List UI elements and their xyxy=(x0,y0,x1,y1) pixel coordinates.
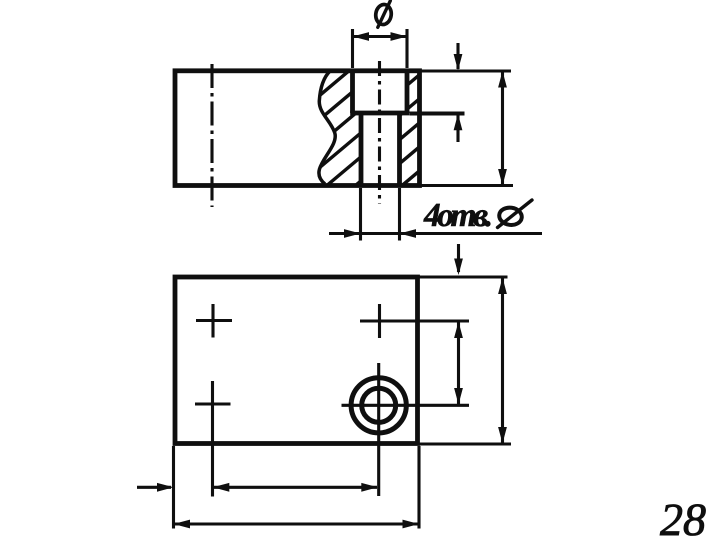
hole right edge xyxy=(397,113,402,185)
extension line top edge (right) xyxy=(419,275,508,278)
dimension hole row to hole row xyxy=(454,322,463,405)
break (wavy) line xyxy=(319,71,335,184)
front section view: part outline xyxy=(175,71,420,186)
extension lines hole diameter xyxy=(361,188,400,241)
counterbore left edge xyxy=(350,70,355,113)
dimension line hole diameter (arrows outside) xyxy=(329,229,542,238)
counterbore right edge xyxy=(405,70,410,113)
extension line left edge (down) xyxy=(172,446,175,529)
dimension counterbore depth upper arrow xyxy=(454,43,463,71)
hole center mark bottom-right xyxy=(342,363,470,496)
extension line top surface (right) xyxy=(420,69,511,72)
label 4 holes diameter xyxy=(423,197,532,234)
svg-text:4отв.: 4отв. xyxy=(423,197,493,234)
diameter symbol label (top) xyxy=(374,1,392,28)
svg-text:28: 28 xyxy=(660,494,706,540)
counterbore shoulder xyxy=(350,111,409,116)
extension line counterbore shoulder (right) xyxy=(410,112,465,116)
dimension line total thickness xyxy=(498,71,507,186)
dimension edge to hole row (outside arrow) xyxy=(454,244,463,275)
page number 28 xyxy=(660,494,706,540)
hole axis centerline (front view) xyxy=(378,61,381,204)
extension line right edge (down) xyxy=(417,446,420,529)
hole left edge xyxy=(359,113,364,185)
vertical centerline of part (left) xyxy=(210,64,213,207)
dimension counterbore depth lower arrow xyxy=(454,114,463,142)
extension line bottom surface (right) xyxy=(420,184,513,187)
dimension overall height of plate xyxy=(498,278,507,444)
dimension overall width of plate xyxy=(174,520,420,529)
hole center mark bottom-left xyxy=(195,381,231,497)
dimension hole column to hole column xyxy=(213,483,378,492)
top view: part outline rectangle xyxy=(175,277,418,444)
section hatching right of hole xyxy=(254,66,545,190)
extension line bottom edge (right) xyxy=(419,442,511,445)
counterbored hole inner circle xyxy=(362,388,396,422)
dimension line counterbore diameter xyxy=(353,32,408,41)
section hatching left of hole xyxy=(179,66,498,190)
extension lines for counterbore diameter xyxy=(353,29,408,68)
hole center mark top-left xyxy=(196,304,232,338)
hole center mark top-right xyxy=(360,304,469,338)
dimension edge to hole column (outside arrow) xyxy=(137,483,174,492)
counterbored hole outer circle xyxy=(351,378,406,433)
